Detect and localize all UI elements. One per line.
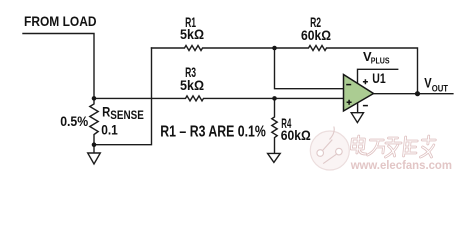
op-amp V+ pin label + xyxy=(363,79,368,84)
label RSENSE xyxy=(102,104,144,122)
svg-text:U1: U1 xyxy=(372,70,386,86)
node: R3/R4 non-inverting junction xyxy=(272,96,277,101)
node: Rsense top / R3 junction xyxy=(92,96,97,101)
wire to inverting input xyxy=(275,48,346,89)
watermark chinese text (stylized strokes) xyxy=(350,136,435,157)
op-amp V- pin label - xyxy=(363,105,368,107)
svg-text:SENSE: SENSE xyxy=(110,108,144,122)
resistor R3 xyxy=(94,96,275,101)
op-amp non-inverting input label + xyxy=(347,100,352,105)
svg-text:R1 – R3 ARE 0.1%: R1 – R3 ARE 0.1% xyxy=(160,124,266,141)
ground for op-amp xyxy=(351,113,363,123)
resistor R2 xyxy=(275,46,418,94)
svg-text:0.5%: 0.5% xyxy=(60,113,88,129)
node VOUT xyxy=(415,91,420,96)
svg-text:FROM LOAD: FROM LOAD xyxy=(24,13,97,29)
svg-text:60kΩ: 60kΩ xyxy=(281,127,311,143)
svg-text:5kΩ: 5kΩ xyxy=(180,26,204,42)
output wire xyxy=(372,93,453,95)
wire from load (input) xyxy=(23,34,94,99)
wire Rsense bottom to R1 left xyxy=(94,48,152,145)
node: R1/R2 inverting junction xyxy=(272,46,277,51)
op-amp U1 xyxy=(344,75,374,112)
label VOUT xyxy=(424,74,448,93)
svg-text:PLUS: PLUS xyxy=(371,56,390,65)
svg-text:www.elecfans.com: www.elecfans.com xyxy=(350,158,452,172)
svg-text:OUT: OUT xyxy=(432,83,449,93)
svg-text:5kΩ: 5kΩ xyxy=(180,77,204,93)
op-amp V- stem to ground xyxy=(357,99,359,113)
wire to non-inverting input xyxy=(275,97,346,99)
resistor R4 xyxy=(272,98,277,153)
resistor R1 xyxy=(152,46,275,51)
op-amp inverting input label - xyxy=(346,84,351,86)
svg-text:60kΩ: 60kΩ xyxy=(301,27,331,43)
svg-text:R: R xyxy=(102,104,110,120)
Vplus supply rail xyxy=(358,69,398,83)
svg-text:0.1: 0.1 xyxy=(101,122,118,138)
ground for R4 xyxy=(268,153,281,162)
node: Rsense bottom xyxy=(92,142,97,147)
watermark logo (elecfans) xyxy=(310,127,349,171)
label VPLUS xyxy=(363,49,390,65)
resistor RSENSE xyxy=(90,98,98,144)
ground for RSENSE xyxy=(88,145,101,164)
